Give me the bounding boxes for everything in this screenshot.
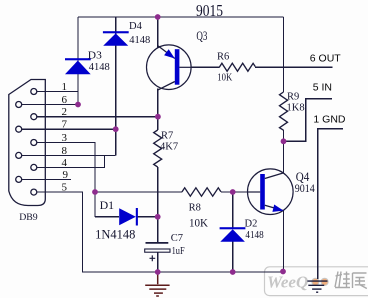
junction dot R9 bottom / Q4 collector / 5 IN xyxy=(281,138,287,144)
junction dot R8 / D2 / Q4 base xyxy=(230,189,236,195)
wire Q3 collector vertical xyxy=(157,89,159,117)
resistor R6 xyxy=(219,63,255,71)
wire Q3 emitter vertical xyxy=(157,17,159,48)
junction dot ground bus / D2 xyxy=(230,269,236,275)
svg-text:2: 2 xyxy=(62,106,68,118)
junction dot line2 / Q3 collector / R7 xyxy=(155,114,161,120)
svg-text:D1: D1 xyxy=(100,200,115,212)
wire pin6 line xyxy=(22,104,78,106)
svg-text:5: 5 xyxy=(62,181,68,193)
wire pin5 line to ground bus xyxy=(37,192,283,272)
diode D1 xyxy=(119,208,138,226)
diode D3 xyxy=(65,58,91,74)
svg-text:4148: 4148 xyxy=(129,35,150,46)
wire Q3 base to R6 and 6 OUT line xyxy=(191,66,333,68)
svg-text:DB9: DB9 xyxy=(19,212,38,223)
wire C7 bottom link xyxy=(157,252,159,272)
resistor R7 xyxy=(154,130,162,167)
wire pin7 line xyxy=(22,128,116,130)
wire 5 IN link xyxy=(284,99,333,142)
wire right vertical from top corner to R9 xyxy=(283,17,285,92)
capacitor C7 xyxy=(145,243,170,261)
junction dot ground bus / Q4 emitter xyxy=(280,269,286,275)
svg-text:4: 4 xyxy=(62,157,68,169)
svg-text:10K: 10K xyxy=(189,218,209,230)
wire R8 left link xyxy=(95,191,182,193)
svg-text:7: 7 xyxy=(62,119,68,131)
svg-text:R7: R7 xyxy=(161,131,173,142)
DB9 pin circles right column 1,2,3,4,5 xyxy=(31,89,37,95)
wire Q4 emitter vertical to ground bus xyxy=(283,211,285,273)
svg-text:1uF: 1uF xyxy=(172,246,185,257)
svg-text:4148: 4148 xyxy=(245,230,263,241)
wire pin8 line xyxy=(22,154,116,156)
wire pin1 line with corner down to line6 xyxy=(37,91,78,93)
svg-text:Q3: Q3 xyxy=(196,29,207,43)
wire pin4 line with vertical up to line8 xyxy=(37,155,104,167)
svg-text:3: 3 xyxy=(62,132,68,144)
resistor R9 xyxy=(280,92,288,130)
svg-text:R8: R8 xyxy=(189,203,201,214)
junction dot line7 / D4 xyxy=(113,126,119,132)
svg-text:4148: 4148 xyxy=(89,62,110,73)
watermark box xyxy=(265,267,368,296)
svg-text:5 IN: 5 IN xyxy=(313,82,332,94)
wire R7 bottom link xyxy=(157,167,159,217)
svg-text:R6: R6 xyxy=(217,52,229,63)
watermark orange circle 1 xyxy=(312,278,319,285)
wire R8 right link xyxy=(221,191,233,193)
wire D1 anode link xyxy=(95,216,119,218)
wire Q4 collector vertical xyxy=(283,141,285,173)
svg-text:R9: R9 xyxy=(287,92,299,103)
wire Q4 base link xyxy=(233,191,248,193)
svg-text:D2: D2 xyxy=(245,219,258,230)
svg-text:4K7: 4K7 xyxy=(160,142,178,153)
diode D4 xyxy=(103,31,129,46)
wire pin3 line with vertical down xyxy=(37,143,95,217)
wire left vertical with D3 xyxy=(77,17,79,105)
resistor R8 xyxy=(182,188,221,196)
junction dot ground bus / C7 xyxy=(155,269,161,275)
svg-text:1: 1 xyxy=(62,81,68,93)
wire D2 bottom link xyxy=(232,242,234,272)
svg-text:C7: C7 xyxy=(171,233,183,244)
svg-text:9: 9 xyxy=(63,169,69,181)
svg-text:6 OUT: 6 OUT xyxy=(310,53,342,65)
junction dot top bus / Q3 emitter xyxy=(155,14,161,20)
wire pin9 line (NC) xyxy=(22,178,71,180)
svg-text:1N4148: 1N4148 xyxy=(95,227,135,241)
wire pin2 line xyxy=(37,116,158,118)
wire D2 top link xyxy=(232,192,234,227)
svg-text:D3: D3 xyxy=(88,50,103,62)
wire D4 vertical from top bus to line8 xyxy=(115,17,117,155)
wire R7 top link xyxy=(157,117,159,130)
diode D2 xyxy=(220,227,246,242)
junction dot line6 / D3 xyxy=(75,102,81,108)
ground (power gnd under C7, maroon) xyxy=(145,272,169,296)
wire top bus xyxy=(78,16,284,18)
watermark text 维库 (approximated strokes) xyxy=(335,272,367,289)
wire 1 GND link xyxy=(318,129,343,279)
junction dot pin3 net / R8 xyxy=(92,189,98,195)
svg-text:8: 8 xyxy=(62,145,68,157)
svg-text:10K: 10K xyxy=(217,73,232,84)
svg-text:WeeQ: WeeQ xyxy=(267,273,308,292)
svg-text:9014: 9014 xyxy=(295,181,315,195)
svg-text:9015: 9015 xyxy=(196,1,223,20)
svg-text:1 GND: 1 GND xyxy=(313,114,346,126)
svg-text:D4: D4 xyxy=(129,21,143,32)
wire D1 cathode link xyxy=(138,216,158,218)
DB9 pin circles left column 6,7,8,9 xyxy=(16,102,22,108)
DB9 connector outline xyxy=(9,80,46,206)
ground (signal gnd right, under 1 GND line) xyxy=(307,281,327,292)
wire C7 top link xyxy=(157,217,159,243)
svg-text:1K8: 1K8 xyxy=(287,102,305,113)
svg-text:6: 6 xyxy=(62,94,68,106)
watermark orange circle 2 xyxy=(321,278,328,285)
wire R9 bottom link to node xyxy=(283,130,285,141)
transistor Q3 (PNP 9015, mirrored) xyxy=(147,45,192,90)
transistor Q4 (NPN 9014) xyxy=(247,169,293,215)
junction dot D1 cathode / R7 / C7 xyxy=(155,214,161,220)
